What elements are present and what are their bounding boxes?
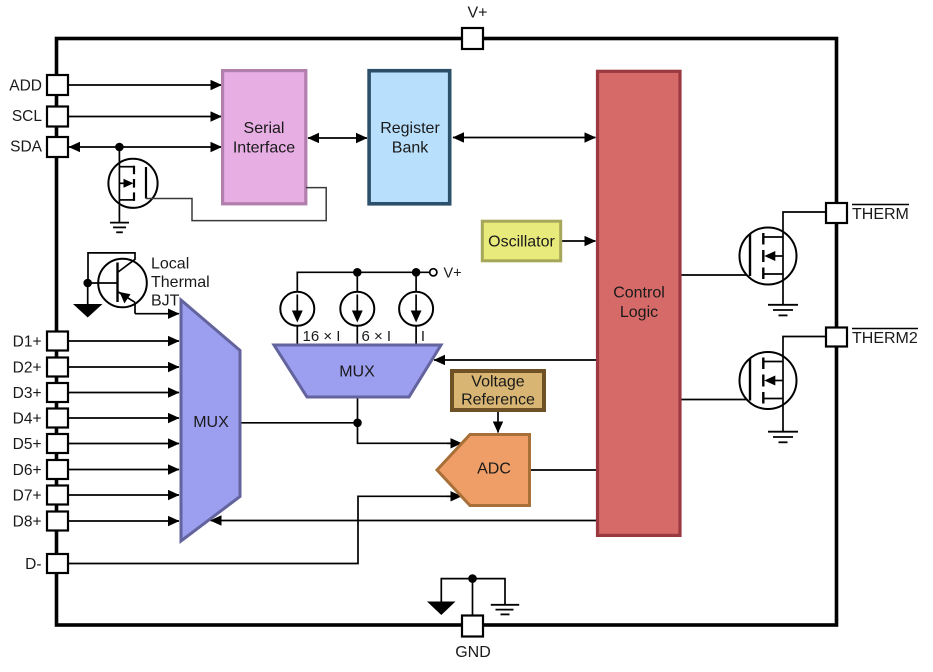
wire big MUX output <box>240 422 358 424</box>
wire small MUX output <box>357 397 359 423</box>
block ADC pentagon <box>437 435 530 506</box>
svg-text:MUX: MUX <box>339 364 375 381</box>
pin V+ <box>462 28 483 49</box>
ground under Q4 <box>768 432 798 443</box>
pin THERM <box>826 203 847 223</box>
wire D4+ to MUX <box>68 417 179 419</box>
pin D4+ <box>47 409 68 428</box>
wire current source 3 to small MUX <box>415 326 417 346</box>
wire BJT junction down <box>87 283 89 304</box>
wire Control Logic select to small MUX <box>434 359 597 361</box>
pin D8+ <box>47 512 68 531</box>
current source I2 (6x) <box>340 292 374 326</box>
svg-text:D1+: D1+ <box>13 334 42 351</box>
wire Control Logic feedback to big MUX <box>211 520 597 522</box>
svg-text:Register: Register <box>380 120 440 137</box>
wire D6+ to MUX <box>68 469 179 471</box>
pin GND <box>462 616 483 637</box>
ground arrow at GND <box>427 602 456 616</box>
svg-text:MUX: MUX <box>193 414 229 431</box>
svg-text:V+: V+ <box>467 5 487 22</box>
wire Serial Interface to Register Bank bidirectional <box>308 137 367 139</box>
block Control Logic <box>598 71 681 535</box>
pin D1+ <box>47 332 68 351</box>
pin SDA <box>47 137 68 157</box>
wire Voltage Reference to ADC <box>497 411 499 433</box>
earth ground at GND <box>491 605 519 615</box>
current source I3 (1x) <box>399 292 433 326</box>
pin D6+ <box>47 460 68 479</box>
wire D- to ADC <box>68 496 453 563</box>
ground arrow under BJT <box>73 304 103 318</box>
wire Q1 gate to Serial Interface <box>146 188 326 221</box>
wire D5+ to MUX <box>68 443 179 445</box>
svg-text:Control: Control <box>613 285 665 302</box>
pin THERM2 <box>826 328 847 347</box>
wire BJT emitter to MUX <box>135 313 179 315</box>
transistor Q4 THERM2 output MOSFET <box>740 337 827 432</box>
pin D- <box>47 554 68 573</box>
wire Control Logic to THERM2 MOSFET gate <box>682 399 751 401</box>
svg-text:Serial: Serial <box>244 120 285 137</box>
svg-text:6 × I: 6 × I <box>362 328 392 345</box>
pin D3+ <box>47 383 68 402</box>
V+ rail over current sources <box>297 272 429 292</box>
node SDA junction <box>115 143 124 152</box>
pin SCL <box>47 107 68 127</box>
svg-text:BJT: BJT <box>151 293 180 310</box>
svg-text:Reference: Reference <box>461 392 535 409</box>
svg-text:D4+: D4+ <box>13 411 42 428</box>
GND net wiring <box>441 579 505 616</box>
wire current source 1 to small MUX <box>296 326 298 346</box>
svg-text:Logic: Logic <box>620 304 658 321</box>
ground under Q1 <box>110 223 129 233</box>
svg-text:D3+: D3+ <box>13 385 42 402</box>
block Oscillator <box>482 221 560 261</box>
svg-text:Interface: Interface <box>233 140 295 157</box>
wire D2+ to MUX <box>68 366 179 368</box>
wire ADD to Serial Interface <box>68 84 222 86</box>
node rail junction 1 <box>353 268 362 277</box>
wire SCL to Serial Interface <box>68 116 222 118</box>
pin D7+ <box>47 486 68 505</box>
transistor Q1 SDA clamp MOSFET <box>108 147 157 223</box>
svg-text:Bank: Bank <box>392 140 429 157</box>
wire Control Logic to THERM MOSFET gate <box>682 274 751 276</box>
svg-text:ADD: ADD <box>9 78 42 95</box>
pin D2+ <box>47 358 68 377</box>
ground under Q3 <box>768 305 798 316</box>
wire D1+ to MUX <box>68 340 179 342</box>
block small MUX <box>274 345 441 397</box>
svg-text:THERM2: THERM2 <box>852 330 918 347</box>
svg-text:Thermal: Thermal <box>151 274 210 291</box>
svg-text:Voltage: Voltage <box>471 374 524 391</box>
svg-text:THERM: THERM <box>852 206 909 223</box>
svg-text:I: I <box>421 328 425 345</box>
svg-text:Local: Local <box>151 256 189 273</box>
node GND junction <box>468 574 477 583</box>
svg-text:D-: D- <box>25 556 41 573</box>
current source I1 (16x) <box>280 292 314 326</box>
pin D5+ <box>47 434 68 453</box>
svg-text:D7+: D7+ <box>13 488 42 505</box>
wire Register Bank to Control Logic bidirectional <box>453 137 596 139</box>
svg-text:16 × I: 16 × I <box>303 328 341 345</box>
wire SDA bidirectional to Serial Interface <box>69 146 222 148</box>
svg-text:ADC: ADC <box>477 461 511 478</box>
svg-text:D6+: D6+ <box>13 462 42 479</box>
wire current source 2 to small MUX <box>356 326 358 346</box>
svg-text:D8+: D8+ <box>13 514 42 531</box>
block big MUX <box>181 300 240 541</box>
svg-text:SDA: SDA <box>10 139 43 156</box>
svg-text:Oscillator: Oscillator <box>488 234 555 251</box>
node rail junction 2 <box>412 268 421 277</box>
block Register Bank <box>369 71 450 204</box>
node V+ terminal open circle <box>430 269 437 276</box>
svg-text:GND: GND <box>455 644 491 661</box>
wire current source 2 to rail <box>356 272 358 292</box>
svg-text:V+: V+ <box>444 266 462 282</box>
node MUX output junction <box>353 419 362 428</box>
wire ADC output to Control Logic <box>530 469 597 471</box>
transistor Q2 local thermal BJT <box>88 253 147 314</box>
wire D8+ to MUX <box>68 520 179 522</box>
node BJT base-collector junction <box>83 279 92 288</box>
wire Oscillator to Control Logic <box>561 240 596 242</box>
wire D7+ to MUX <box>68 494 179 496</box>
svg-text:D2+: D2+ <box>13 360 42 377</box>
wire D3+ to MUX <box>68 392 179 394</box>
wire MUX junction to ADC <box>358 423 453 444</box>
transistor Q3 THERM output MOSFET <box>740 212 827 305</box>
outer chip boundary <box>57 39 837 626</box>
svg-text:D5+: D5+ <box>13 436 42 453</box>
svg-text:SCL: SCL <box>12 108 43 125</box>
wire current source 3 to rail <box>415 272 417 292</box>
block Serial Interface <box>223 71 306 204</box>
pin ADD <box>47 75 68 95</box>
block Voltage Reference <box>452 371 544 410</box>
